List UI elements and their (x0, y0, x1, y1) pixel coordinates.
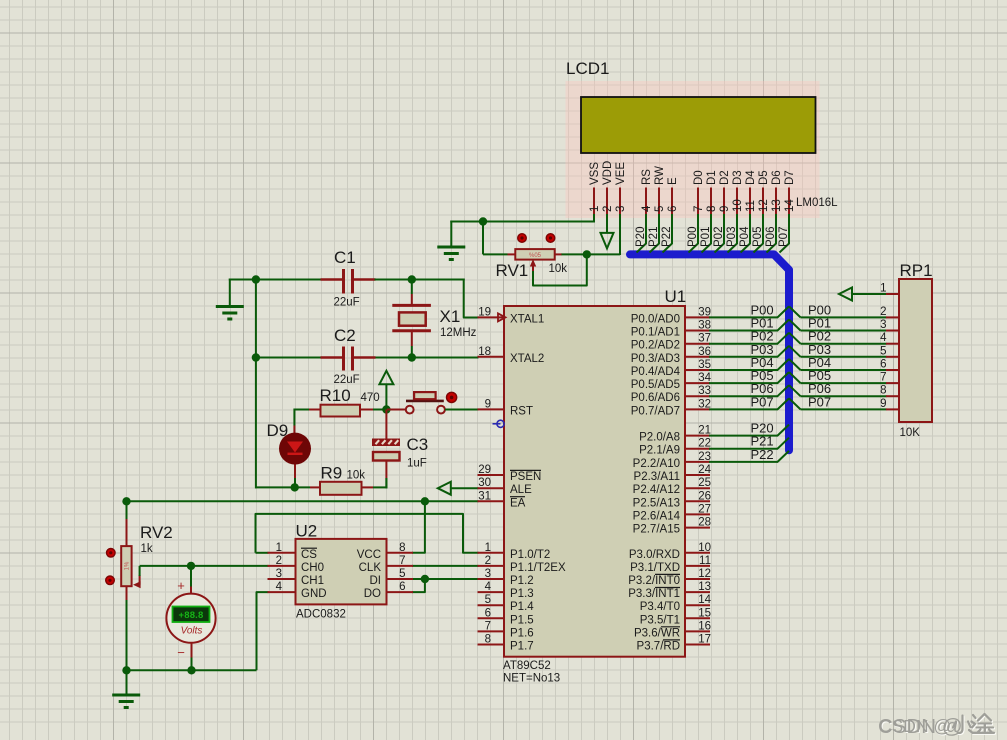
svg-text:10: 10 (698, 542, 711, 554)
svg-text:1: 1 (276, 542, 282, 554)
wire U2 VCC up to EA rail (412, 500, 425, 553)
svg-text:4: 4 (276, 581, 283, 593)
svg-text:28: 28 (698, 517, 711, 529)
svg-text:P1.2: P1.2 (510, 575, 534, 587)
svg-text:1: 1 (485, 542, 491, 554)
svg-text:7: 7 (485, 620, 491, 632)
svg-text:R9: R9 (321, 464, 343, 483)
wire VEE pin3 down (619, 214, 621, 255)
svg-text:PSEN: PSEN (510, 471, 541, 483)
svg-text:P1.7: P1.7 (510, 641, 534, 653)
svg-text:2: 2 (602, 206, 614, 212)
svg-text:22uF: 22uF (334, 374, 360, 386)
wire down to RV1 left terminal (482, 221, 484, 255)
wire RV2 bottom (126, 586, 128, 600)
wire RV1 wiper loop (533, 254, 587, 285)
svg-text:P20: P20 (635, 227, 647, 247)
svg-text:P3.2/INT0: P3.2/INT0 (628, 575, 680, 587)
svg-text:25: 25 (698, 477, 711, 489)
svg-text:P3.4/T0: P3.4/T0 (640, 601, 680, 613)
svg-text:DO: DO (364, 588, 381, 600)
wire U2 GND down to rail (257, 592, 269, 670)
svg-text:RW: RW (654, 166, 666, 185)
svg-text:D1: D1 (706, 170, 718, 185)
svg-text:P2.7/A15: P2.7/A15 (633, 524, 680, 536)
svg-text:12MHz: 12MHz (440, 327, 477, 339)
svg-text:P06: P06 (765, 227, 777, 247)
svg-text:10K: 10K (900, 427, 921, 439)
svg-text:8: 8 (399, 542, 405, 554)
svg-text:7: 7 (693, 206, 705, 212)
svg-text:P22: P22 (661, 227, 673, 247)
svg-text:P07: P07 (778, 227, 790, 247)
svg-text:3: 3 (880, 319, 886, 331)
svg-text:VSS: VSS (589, 162, 601, 185)
node junction wiper/voltmeter (187, 562, 195, 570)
svg-text:P05: P05 (752, 227, 764, 247)
wire bottom ground rail (127, 669, 257, 671)
node junction D9/R9 (291, 483, 299, 491)
resistor pack RP1 body (899, 279, 932, 422)
svg-text:D7: D7 (784, 170, 796, 185)
svg-text:D2: D2 (719, 170, 731, 185)
svg-text:1: 1 (880, 283, 886, 295)
svg-text:26: 26 (698, 490, 711, 502)
svg-text:6: 6 (485, 607, 491, 619)
svg-text:17: 17 (698, 634, 711, 646)
svg-text:P3.0/RXD: P3.0/RXD (629, 549, 680, 561)
wire VDD pin2 down to power arrow (606, 214, 608, 233)
svg-text:13: 13 (698, 581, 711, 593)
svg-text:12: 12 (698, 568, 711, 580)
svg-text:9: 9 (880, 398, 886, 410)
node junction EA/U2-VCC (421, 497, 429, 505)
svg-text:CSDN @: CSDN @ (878, 715, 963, 738)
svg-text:C2: C2 (334, 326, 356, 345)
svg-text:R10: R10 (320, 386, 351, 405)
svg-text:P2.4/A12: P2.4/A12 (633, 484, 680, 496)
svg-text:3: 3 (485, 568, 491, 580)
wires LCD pins 4-14 down to bus with net labels (635, 214, 790, 253)
potentiometer RV1 body (508, 253, 516, 255)
U1 left pin names (510, 313, 566, 652)
LCD1 display screen (581, 97, 816, 153)
node junction C2-row / left vertical (252, 353, 260, 361)
wire VSS pin1 down (593, 214, 595, 223)
svg-text:22uF: 22uF (334, 297, 360, 309)
svg-text:CH1: CH1 (301, 575, 324, 587)
svg-text:P1.6: P1.6 (510, 627, 534, 639)
svg-text:P2.0/A8: P2.0/A8 (639, 432, 680, 444)
svg-text:P22: P22 (751, 447, 774, 462)
svg-text:P0.0/AD0: P0.0/AD0 (631, 313, 680, 325)
node junction voltmeter/rail (187, 666, 195, 674)
RV2 wiper arrow (133, 581, 141, 588)
node junction RV1 wiper/VEE (583, 250, 591, 258)
svg-text:5: 5 (399, 568, 405, 580)
svg-text:1uF: 1uF (407, 458, 427, 470)
svg-text:P2.3/A11: P2.3/A11 (634, 471, 680, 483)
ground bottom-left (112, 694, 140, 697)
wire power arrow stem (385, 384, 387, 410)
svg-text:11: 11 (745, 200, 757, 212)
svg-text:4: 4 (641, 205, 653, 212)
svg-text:AT89C52: AT89C52 (503, 660, 551, 672)
crystal X1 (411, 279, 413, 295)
capacitor C3 (electrolytic) (385, 410, 387, 440)
svg-text:%05: %05 (529, 253, 542, 259)
wire left vertical rail C1..R9 (255, 279, 257, 489)
svg-text:6: 6 (880, 359, 886, 371)
watermark CSDN (880, 717, 952, 737)
svg-text:3: 3 (615, 206, 627, 212)
resistor R9 (255, 486, 310, 488)
svg-text:Volts: Volts (181, 626, 203, 637)
U1 left pin numbers (478, 306, 491, 645)
svg-text:1k: 1k (141, 543, 153, 555)
svg-text:5: 5 (654, 206, 666, 212)
svg-text:DI: DI (370, 575, 382, 587)
wire RP1 pin 1 (852, 293, 887, 295)
svg-text:P2.5/A13: P2.5/A13 (633, 497, 680, 509)
svg-text:2: 2 (276, 555, 282, 567)
wires P0.0-P0.7 to bus and RP1 with net labels (709, 302, 900, 410)
svg-text:4: 4 (880, 332, 887, 344)
wire U2 DO to DI (412, 580, 425, 592)
svg-text:P1.3: P1.3 (510, 588, 534, 600)
svg-text:15: 15 (698, 607, 711, 619)
svg-text:19: 19 (478, 306, 491, 318)
svg-text:P2.2/A10: P2.2/A10 (633, 458, 680, 470)
svg-text:E: E (667, 177, 679, 185)
svg-text:P3.6/WR: P3.6/WR (634, 627, 680, 639)
svg-text:VCC: VCC (357, 549, 381, 561)
wire voltmeter + lead (190, 565, 192, 587)
svg-text:8: 8 (706, 206, 718, 212)
svg-text:2: 2 (485, 555, 491, 567)
svg-text:RST: RST (510, 405, 533, 417)
power terminal arrow up (VCC to R10/C3) (379, 371, 393, 385)
svg-text:29: 29 (478, 464, 491, 476)
svg-text:U2: U2 (296, 522, 318, 541)
RV1 drag markers (518, 234, 527, 243)
svg-text:P3.1/TXD: P3.1/TXD (630, 562, 680, 574)
svg-text:5: 5 (880, 345, 886, 357)
LED D9 (293, 409, 295, 426)
svg-text:P07: P07 (808, 394, 831, 409)
svg-text:RP1: RP1 (900, 261, 933, 280)
U1 RST blue probe marker (493, 420, 505, 427)
svg-text:P0.4/AD4: P0.4/AD4 (631, 366, 681, 378)
wire EA rail (127, 500, 479, 502)
svg-text:14: 14 (698, 594, 711, 606)
svg-text:13: 13 (771, 199, 783, 212)
ground top-right (450, 221, 452, 247)
svg-text:P07: P07 (751, 394, 774, 409)
svg-text:CLK: CLK (359, 562, 382, 574)
svg-text:ADC0832: ADC0832 (296, 609, 346, 621)
svg-text:P1.0/T2: P1.0/T2 (510, 549, 550, 561)
svg-text:6: 6 (667, 206, 679, 212)
capacitor C1 (321, 278, 343, 281)
svg-text:2: 2 (880, 306, 886, 318)
svg-text:VDD: VDD (602, 161, 614, 185)
node junction VSS/RV1 branch (479, 217, 487, 225)
svg-text:P0.1/AD1: P0.1/AD1 (631, 327, 680, 339)
svg-text:16: 16 (698, 620, 711, 632)
svg-text:8: 8 (880, 385, 886, 397)
power terminal arrow left (RP1 pin 1) (839, 288, 852, 301)
node junction EA/RV2 (122, 497, 130, 505)
svg-text:31: 31 (478, 490, 491, 502)
svg-text:10: 10 (732, 199, 744, 212)
svg-text:470: 470 (361, 392, 380, 404)
voltmeter (DC volts) (166, 594, 215, 643)
node junction DI/DO (421, 575, 429, 583)
push button (reset) (387, 409, 406, 411)
svg-text:+88.8: +88.8 (178, 610, 203, 621)
U2 pin stubs right 8 7 5 6 (386, 553, 413, 592)
svg-text:5: 5 (485, 594, 491, 606)
svg-text:CS: CS (301, 549, 317, 561)
svg-text:P1.1/T2EX: P1.1/T2EX (510, 562, 566, 574)
svg-text:18: 18 (478, 346, 491, 358)
wire button to RST (445, 409, 479, 411)
svg-text:4: 4 (485, 581, 492, 593)
svg-text:6: 6 (399, 581, 405, 593)
power terminal arrow down (VDD) (601, 233, 614, 249)
svg-text:LM016L: LM016L (796, 197, 838, 209)
node junction C1-row / left vertical (252, 275, 260, 283)
node junction R10/button/C3 (382, 405, 390, 413)
svg-text:C1: C1 (334, 248, 356, 267)
RV1 wiper arrow (532, 262, 534, 272)
wire ALE (451, 487, 479, 489)
power terminal arrow left (ALE) (438, 482, 451, 495)
svg-text:D4: D4 (745, 170, 757, 185)
LCD1 pin numbers 1-14 (589, 199, 796, 212)
svg-text:RV2: RV2 (140, 523, 173, 542)
svg-text:RS: RS (641, 169, 653, 185)
wire rail ground stem (126, 670, 128, 694)
svg-text:P3.5/T1: P3.5/T1 (640, 614, 680, 626)
svg-text:C3: C3 (407, 435, 429, 454)
svg-text:8: 8 (485, 634, 491, 646)
svg-text:D6: D6 (771, 170, 783, 185)
wire RV2 wiper to CH0 (139, 566, 141, 576)
wires P2.0-P2.2 to bus with net labels (709, 421, 789, 462)
svg-text:P3.3/INT1: P3.3/INT1 (628, 588, 680, 600)
svg-text:27: 27 (698, 503, 711, 515)
U1 right pin stubs (685, 317, 711, 644)
svg-text:P1.5: P1.5 (510, 614, 534, 626)
svg-text:P21: P21 (648, 227, 660, 247)
svg-text:12: 12 (758, 199, 770, 212)
svg-text:7: 7 (399, 555, 405, 567)
svg-text:P0.5/AD5: P0.5/AD5 (631, 379, 680, 391)
svg-text:LCD1: LCD1 (566, 59, 609, 78)
node junction RV2/rail (122, 666, 130, 674)
svg-text:P2.1/A9: P2.1/A9 (639, 445, 680, 457)
svg-text:ALE: ALE (510, 484, 532, 496)
svg-text:D3: D3 (732, 170, 744, 185)
svg-text:D9: D9 (267, 421, 289, 440)
svg-text:U1: U1 (665, 287, 687, 306)
svg-text:P0.3/AD3: P0.3/AD3 (631, 353, 680, 365)
wire U2 DI to P1.2 (412, 578, 479, 580)
svg-text:VEE: VEE (615, 162, 627, 185)
svg-text:9: 9 (485, 398, 491, 410)
svg-text:P01: P01 (700, 227, 712, 247)
svg-text:3: 3 (276, 568, 282, 580)
wire U2 CLK to P1.1 (412, 565, 479, 567)
svg-text:RV1: RV1 (496, 261, 529, 280)
button drag marker (447, 392, 457, 402)
svg-text:P03: P03 (726, 227, 738, 247)
wire voltmeter - lead (191, 643, 193, 658)
bus LCD data/control to U1/RP1 (630, 254, 789, 450)
svg-text:+: + (177, 578, 185, 593)
svg-text:P0.7/AD7: P0.7/AD7 (631, 405, 680, 417)
svg-text:P2.6/A14: P2.6/A14 (633, 510, 681, 522)
svg-text:D0: D0 (693, 170, 705, 185)
resistor R10 (294, 409, 309, 411)
svg-text:9: 9 (719, 206, 731, 212)
svg-text:30: 30 (478, 477, 491, 489)
svg-text:P3.7/RD: P3.7/RD (637, 641, 680, 653)
U2 pin stubs left 1-4 (268, 553, 297, 592)
LCD LCD1 selection highlight panel (566, 81, 820, 218)
svg-text:NET=No13: NET=No13 (503, 673, 560, 685)
svg-text:24: 24 (698, 464, 711, 476)
svg-text:11: 11 (699, 555, 711, 567)
svg-text:7: 7 (880, 372, 886, 384)
svg-text:XTAL1: XTAL1 (510, 313, 544, 325)
svg-text:−: − (177, 645, 185, 660)
wire ground rail to VSS (450, 221, 595, 223)
svg-text:EA: EA (510, 497, 526, 509)
svg-text:10k: 10k (347, 470, 366, 482)
LCD1 pin names VSS VDD VEE RS RW E D0-D7 (589, 161, 796, 185)
capacitor C2 (321, 356, 343, 359)
IC U1 AT89C52 body (504, 306, 685, 657)
wire C2/XTAL2 row (255, 357, 322, 359)
U1 left pin stubs (478, 317, 505, 644)
svg-text:14: 14 (784, 199, 796, 212)
U2 pin numbers (276, 542, 406, 593)
svg-text:P00: P00 (687, 227, 699, 247)
wire C1 to XTAL1 jog (375, 279, 465, 281)
svg-text:X1: X1 (440, 307, 461, 326)
svg-text:1%: 1% (125, 561, 131, 570)
potentiometer RV2 body (121, 546, 131, 586)
wire C1 row left + ground stem (229, 279, 231, 307)
svg-text:P0.6/AD6: P0.6/AD6 (631, 392, 680, 404)
U1 right pin numbers (698, 306, 711, 645)
node junction C1-row / X1 top (408, 275, 416, 283)
svg-text:CH0: CH0 (301, 562, 324, 574)
U1 right pin names (628, 313, 680, 652)
LCD1 pin stubs 1-14 (594, 188, 789, 216)
U1 XTAL1 clock arrow (498, 313, 506, 321)
svg-text:P02: P02 (713, 227, 725, 247)
node junction C2-row / X1 bottom (408, 353, 416, 361)
svg-text:P1.4: P1.4 (510, 601, 534, 613)
IC U2 ADC0832 body (296, 539, 387, 605)
wire U2 CS loop to P1.0 (256, 514, 479, 553)
RV2 drag markers (107, 549, 116, 558)
svg-text:1: 1 (589, 206, 601, 212)
svg-text:P04: P04 (739, 226, 751, 247)
svg-text:GND: GND (301, 588, 327, 600)
svg-text:XTAL2: XTAL2 (510, 353, 544, 365)
svg-text:D5: D5 (758, 170, 770, 185)
wire RV2 top to EA rail (126, 500, 128, 519)
svg-text:P0.2/AD2: P0.2/AD2 (631, 340, 680, 352)
wire VEE to RV1 wiper net (561, 253, 620, 255)
svg-text:10k: 10k (549, 263, 568, 275)
U2 pin names (301, 548, 381, 600)
